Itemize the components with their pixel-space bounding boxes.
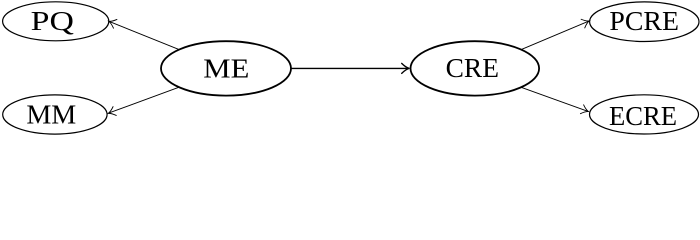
arrow ME to CRE wire (thick) xyxy=(291,67,409,69)
arrow CRE to ECRE head xyxy=(580,105,590,116)
arrow CRE to ECRE wire xyxy=(522,87,588,111)
arrow ME to PQ head xyxy=(107,17,117,28)
arrow CRE to PCRE head xyxy=(581,17,591,28)
node MM ellipse xyxy=(3,95,107,134)
svg-text:PCRE: PCRE xyxy=(609,6,679,36)
arrow CRE to PCRE wire xyxy=(522,21,589,49)
node ECRE ellipse xyxy=(590,95,699,134)
svg-text:ME: ME xyxy=(203,54,249,84)
arrow ME to PQ wire xyxy=(110,22,180,50)
svg-text:PQ: PQ xyxy=(31,6,75,36)
arrow ME to CRE head xyxy=(402,63,410,73)
svg-text:MM: MM xyxy=(26,100,76,130)
svg-text:ECRE: ECRE xyxy=(609,101,677,131)
node PQ ellipse xyxy=(3,2,109,41)
svg-text:CRE: CRE xyxy=(446,53,499,83)
node ME ellipse xyxy=(161,41,291,95)
node CRE ellipse xyxy=(411,41,540,95)
arrow ME to MM head xyxy=(107,107,117,118)
arrow ME to MM wire xyxy=(109,87,180,113)
node PCRE ellipse xyxy=(590,2,699,42)
